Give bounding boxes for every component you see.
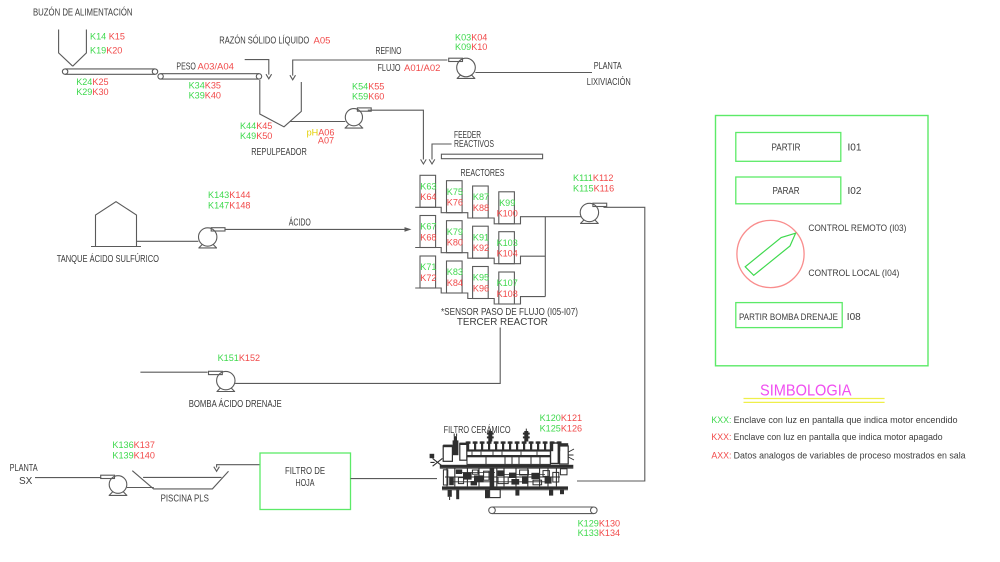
- svg-text:BUZÓN DE ALIMENTACIÓN: BUZÓN DE ALIMENTACIÓN: [33, 5, 133, 18]
- svg-text:K139K140: K139K140: [112, 451, 154, 461]
- svg-text:K108: K108: [497, 289, 518, 299]
- svg-text:K84: K84: [447, 278, 463, 288]
- svg-text:I01: I01: [848, 142, 862, 153]
- svg-text:K76: K76: [447, 198, 463, 208]
- svg-text:K96: K96: [473, 283, 489, 293]
- svg-text:K44K45: K44K45: [240, 121, 272, 131]
- svg-text:K80: K80: [447, 238, 463, 248]
- svg-text:K87: K87: [473, 192, 489, 202]
- svg-text:K103: K103: [497, 238, 518, 248]
- svg-text:RAZÓN SÓLIDO LÍQUIDO: RAZÓN SÓLIDO LÍQUIDO: [219, 33, 309, 46]
- svg-text:FILTRO CERÁMICO: FILTRO CERÁMICO: [444, 423, 511, 436]
- svg-text:K64: K64: [420, 192, 436, 202]
- svg-text:K24K25: K24K25: [76, 77, 108, 87]
- svg-text:A07: A07: [318, 136, 334, 146]
- svg-text:SIMBOLOGIA: SIMBOLOGIA: [760, 383, 852, 400]
- svg-text:ÁCIDO: ÁCIDO: [289, 216, 311, 229]
- svg-text:PARTIR BOMBA DRENAJE: PARTIR BOMBA DRENAJE: [739, 312, 838, 322]
- svg-text:K71: K71: [420, 262, 436, 272]
- svg-text:CONTROL LOCAL (I04): CONTROL LOCAL (I04): [808, 268, 899, 278]
- svg-text:PARAR: PARAR: [773, 186, 800, 197]
- svg-text:K59K60: K59K60: [352, 91, 384, 101]
- svg-text:KXX:: KXX:: [711, 432, 731, 442]
- svg-text:K75: K75: [447, 187, 463, 197]
- svg-text:Enclave con luz en pantalla qu: Enclave con luz en pantalla que indica m…: [734, 415, 958, 425]
- svg-text:K63: K63: [420, 182, 436, 192]
- svg-text:K92: K92: [473, 243, 489, 253]
- svg-text:K79: K79: [447, 227, 463, 237]
- svg-text:K34K35: K34K35: [189, 81, 221, 91]
- svg-text:K107: K107: [497, 278, 518, 288]
- svg-text:A05: A05: [314, 35, 331, 46]
- svg-text:K115K116: K115K116: [573, 184, 614, 194]
- svg-text:SX: SX: [19, 476, 33, 487]
- svg-text:K67: K67: [420, 222, 436, 232]
- svg-text:K09K10: K09K10: [455, 42, 487, 52]
- svg-text:K83: K83: [447, 267, 463, 277]
- svg-text:K95: K95: [473, 273, 489, 283]
- svg-text:K49K50: K49K50: [240, 131, 272, 141]
- svg-text:K29K30: K29K30: [76, 87, 108, 97]
- svg-text:K120K121: K120K121: [540, 413, 583, 423]
- svg-text:PESO: PESO: [176, 61, 196, 72]
- svg-text:REPULPEADOR: REPULPEADOR: [251, 147, 307, 158]
- svg-text:K143K144: K143K144: [208, 190, 251, 200]
- svg-text:K125K126: K125K126: [540, 424, 583, 434]
- svg-text:K99: K99: [499, 198, 515, 208]
- svg-text:REACTIVOS: REACTIVOS: [454, 139, 494, 150]
- svg-text:Enclave con luz en pantalla qu: Enclave con luz en pantalla que indica m…: [734, 432, 943, 442]
- svg-text:K91: K91: [473, 232, 489, 242]
- svg-text:PISCINA PLS: PISCINA PLS: [161, 494, 210, 505]
- svg-text:AXX:: AXX:: [711, 451, 731, 461]
- svg-text:K104: K104: [497, 249, 518, 259]
- svg-text:K151K152: K151K152: [218, 353, 261, 363]
- svg-text:FLUJO: FLUJO: [378, 63, 401, 74]
- svg-text:FILTRO DE: FILTRO DE: [285, 466, 325, 477]
- svg-text:I08: I08: [847, 312, 861, 323]
- svg-text:A03/A04: A03/A04: [198, 61, 234, 72]
- svg-text:LIXIVIACIÓN: LIXIVIACIÓN: [587, 75, 631, 88]
- svg-text:K19K20: K19K20: [90, 45, 122, 55]
- svg-text:K133K134: K133K134: [578, 528, 621, 538]
- svg-text:PARTIR: PARTIR: [772, 142, 801, 153]
- svg-text:TERCER REACTOR: TERCER REACTOR: [457, 317, 548, 328]
- svg-text:REACTORES: REACTORES: [461, 168, 505, 179]
- svg-text:PLANTA: PLANTA: [10, 463, 38, 474]
- svg-text:KXX:: KXX:: [711, 415, 731, 425]
- svg-text:K68: K68: [420, 232, 436, 242]
- svg-text:A01/A02: A01/A02: [404, 63, 440, 74]
- svg-text:I02: I02: [848, 186, 862, 197]
- svg-text:Datos analogos de variables de: Datos analogos de variables de proceso m…: [734, 451, 966, 461]
- svg-text:K39K40: K39K40: [189, 91, 221, 101]
- svg-text:K147K148: K147K148: [208, 200, 251, 210]
- svg-text:K72: K72: [420, 273, 436, 283]
- svg-text:K54K55: K54K55: [352, 81, 384, 91]
- svg-text:CONTROL REMOTO (I03): CONTROL REMOTO (I03): [808, 223, 906, 233]
- svg-text:K100: K100: [497, 209, 518, 219]
- svg-text:K111K112: K111K112: [573, 173, 613, 183]
- svg-text:PLANTA: PLANTA: [594, 61, 622, 72]
- svg-text:K88: K88: [473, 203, 489, 213]
- svg-text:K14 K15: K14 K15: [90, 31, 125, 41]
- svg-text:K136K137: K136K137: [112, 440, 154, 450]
- svg-text:TANQUE ÁCIDO SULFÚRICO: TANQUE ÁCIDO SULFÚRICO: [57, 252, 159, 265]
- svg-text:REFINO: REFINO: [376, 46, 402, 57]
- svg-text:BOMBA ÁCIDO DRENAJE: BOMBA ÁCIDO DRENAJE: [189, 397, 282, 410]
- svg-text:HOJA: HOJA: [296, 478, 315, 489]
